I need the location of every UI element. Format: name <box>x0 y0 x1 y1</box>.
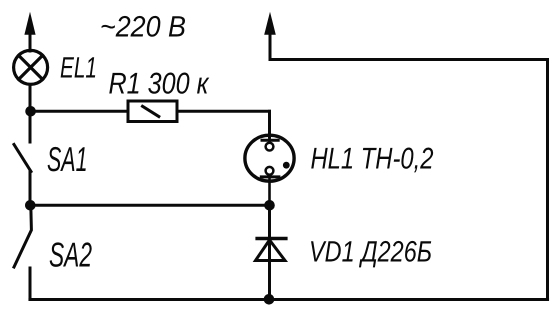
wire <box>29 268 32 300</box>
node D <box>264 294 275 305</box>
HL1 bottom electrode <box>261 167 279 205</box>
wire <box>29 172 32 206</box>
wire R1 row <box>30 110 128 113</box>
resistor R1 <box>128 101 177 122</box>
svg-text:~220 В: ~220 В <box>100 10 186 43</box>
svg-text:HL1 ТН-0,2: HL1 ТН-0,2 <box>311 142 434 175</box>
HL1 top electrode <box>262 137 278 151</box>
diode VD1 <box>256 239 286 261</box>
arrow mains left <box>24 12 35 35</box>
svg-text:VD1 Д226Б: VD1 Д226Б <box>309 235 432 268</box>
wire <box>29 84 32 142</box>
node B <box>25 200 36 211</box>
wire bottom <box>30 298 548 301</box>
wire SA row <box>30 204 270 207</box>
node C <box>264 200 275 211</box>
lamp EL1 <box>14 50 48 84</box>
node A <box>25 106 36 117</box>
wire <box>269 33 272 60</box>
arrow mains right <box>264 12 276 35</box>
switch SA1 <box>14 145 31 172</box>
wire right rail <box>546 60 549 300</box>
svg-text:SA2: SA2 <box>49 236 92 274</box>
svg-text:R1 300 к: R1 300 к <box>109 67 211 100</box>
svg-text:SA1: SA1 <box>47 141 88 179</box>
wire <box>268 111 271 137</box>
wire <box>29 33 32 51</box>
wire top right <box>270 58 548 61</box>
wire <box>177 110 270 113</box>
wire <box>268 205 271 300</box>
neon lamp HL1 <box>245 135 294 181</box>
svg-text:EL1: EL1 <box>60 51 97 84</box>
HL1 gas dot <box>283 162 290 169</box>
switch SA2 <box>14 205 31 267</box>
